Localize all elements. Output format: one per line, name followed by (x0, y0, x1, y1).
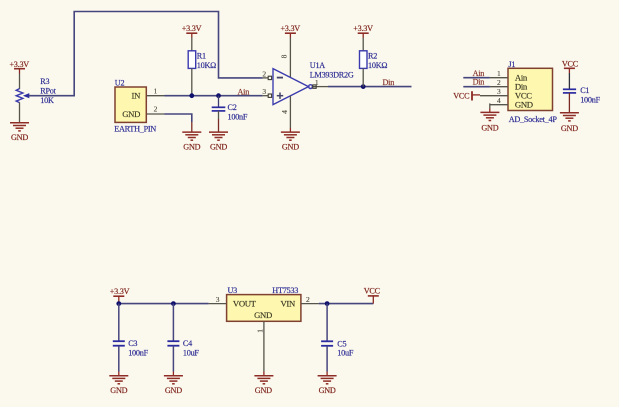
label R3 RPot 10K (40, 77, 56, 105)
pin 4 of U1A (280, 96, 291, 132)
regulator U3 HT7533 (227, 286, 301, 321)
svg-text:C1: C1 (580, 86, 589, 95)
svg-text:GND: GND (515, 99, 533, 109)
svg-text:2: 2 (306, 295, 310, 304)
svg-text:GND: GND (110, 386, 127, 395)
svg-text:C5: C5 (337, 339, 346, 348)
svg-text:100nF: 100nF (580, 96, 600, 105)
svg-text:RPot: RPot (40, 87, 56, 96)
power +3.3V (R2) (353, 24, 373, 37)
wire Din to J1 pin2 (463, 86, 490, 88)
svg-text:4: 4 (497, 96, 501, 105)
svg-text:VIN: VIN (280, 298, 295, 308)
resistor R1 (188, 38, 216, 96)
svg-text:1: 1 (255, 329, 264, 333)
svg-text:VCC: VCC (364, 286, 381, 295)
svg-text:R1: R1 (197, 51, 206, 60)
wire wiper to op-amp pin2 (29, 12, 263, 96)
pin 4 of J1 (490, 96, 508, 105)
svg-text:GND: GND (183, 142, 200, 151)
pin 2 of J1 (490, 78, 508, 87)
power VCC (J1 pin3) (453, 91, 480, 100)
capacitor C2 (212, 96, 248, 132)
svg-text:GND: GND (254, 310, 272, 320)
capacitor C4 (167, 304, 199, 376)
junction (C4) (171, 301, 176, 306)
power VCC (U3 right) (364, 286, 381, 303)
svg-text:8: 8 (280, 54, 289, 58)
power +3.3V (bottom) (110, 287, 130, 304)
pin 1 of U1A (output) (312, 78, 328, 88)
ground (U2 pin2) (182, 132, 201, 151)
svg-text:VCC: VCC (453, 91, 470, 100)
pin 3 of U1A (262, 87, 271, 97)
svg-text:GND: GND (210, 142, 227, 151)
component U2 EARTH_PIN (114, 79, 156, 134)
svg-text:VOUT: VOUT (233, 298, 257, 308)
svg-text:10uF: 10uF (337, 349, 354, 358)
svg-text:AD_Socket_4P: AD_Socket_4P (509, 115, 558, 124)
pin 1 of U2 (147, 87, 165, 96)
capacitor C5 (321, 304, 354, 376)
svg-text:IN: IN (132, 90, 142, 100)
svg-text:2: 2 (154, 104, 158, 113)
pin 1 of J1 (490, 69, 508, 78)
junction (C3) (116, 301, 121, 306)
junction (R1 bottom) (189, 93, 194, 98)
potentiometer R3 (16, 74, 29, 123)
svg-text:HT7533: HT7533 (272, 286, 298, 295)
svg-text:+3.3V: +3.3V (353, 24, 373, 33)
pin 2 of U2 (147, 104, 165, 114)
svg-text:10KΩ: 10KΩ (368, 61, 387, 70)
svg-text:+3.3V: +3.3V (280, 24, 300, 33)
svg-text:GND: GND (282, 142, 299, 151)
capacitor C1 (563, 73, 601, 113)
svg-text:3: 3 (497, 87, 501, 96)
svg-text:10K: 10K (40, 96, 54, 105)
svg-text:Ain: Ain (238, 87, 250, 96)
pin 1 of U3 (GND) (255, 321, 264, 375)
svg-text:+3.3V: +3.3V (9, 60, 29, 69)
svg-text:U2: U2 (115, 79, 125, 88)
power VCC (C1) (562, 60, 579, 74)
resistor R2 (360, 38, 388, 87)
svg-text:10uF: 10uF (183, 348, 200, 357)
svg-text:U1A: U1A (310, 61, 326, 70)
svg-text:VCC: VCC (562, 60, 579, 69)
ground (J1 pin4) (480, 112, 499, 132)
ground (R3) (10, 123, 29, 142)
svg-text:Din: Din (473, 78, 485, 87)
svg-text:GND: GND (11, 133, 28, 142)
op-amp U1A (273, 61, 354, 104)
svg-text:R3: R3 (40, 77, 49, 86)
svg-text:+3.3V: +3.3V (182, 24, 202, 33)
svg-text:Din: Din (383, 78, 395, 87)
power +3.3V (R3) (9, 60, 29, 74)
svg-text:1: 1 (154, 87, 158, 96)
pin 2 of U3 (301, 295, 319, 304)
svg-text:C2: C2 (228, 103, 237, 112)
pin 3 of U3 (209, 295, 227, 304)
wire +3.3V to U3 pin3 (119, 303, 209, 305)
ground (C5) (318, 376, 337, 395)
junction (C2 top) (216, 93, 221, 98)
ground (C3) (109, 376, 128, 395)
pin 3 of J1 (480, 87, 508, 96)
ground (C2) (209, 132, 228, 151)
junction (C5) (325, 301, 330, 306)
power +3.3V (U1A pin8) (280, 24, 300, 37)
svg-text:GND: GND (481, 123, 498, 132)
pin 8 of U1A (280, 38, 291, 78)
wire U3 pin2 to VCC (319, 303, 373, 305)
svg-text:GND: GND (122, 109, 140, 119)
svg-text:GND: GND (255, 386, 272, 395)
ground (U1A pin4) (281, 132, 300, 151)
wire J1 pin4 to ground (489, 103, 491, 112)
svg-text:3: 3 (262, 87, 266, 96)
svg-text:GND: GND (165, 386, 182, 395)
svg-text:U3: U3 (228, 286, 238, 295)
connector J1 AD_Socket_4P (508, 60, 557, 124)
ground (C1) (560, 113, 579, 133)
svg-text:2: 2 (497, 78, 501, 87)
svg-text:100nF: 100nF (228, 113, 248, 122)
svg-text:EARTH_PIN: EARTH_PIN (114, 125, 156, 134)
wire Ain to J1 pin1 (463, 77, 490, 79)
svg-text:GND: GND (319, 386, 336, 395)
svg-text:2: 2 (262, 69, 266, 78)
capacitor C3 (113, 304, 149, 376)
svg-text:R2: R2 (368, 51, 377, 60)
wire U2 pin2 to ground (165, 114, 192, 132)
wire output to Din (328, 86, 412, 88)
svg-text:100nF: 100nF (128, 348, 148, 357)
svg-text:3: 3 (216, 295, 220, 304)
power +3.3V (R1) (182, 24, 202, 37)
svg-text:GND: GND (561, 124, 578, 133)
junction (R2 bottom) (361, 84, 366, 89)
svg-text:C3: C3 (128, 339, 137, 348)
svg-text:1: 1 (315, 78, 319, 87)
ground (U3) (254, 376, 273, 395)
svg-text:C4: C4 (183, 339, 192, 348)
svg-text:4: 4 (280, 110, 289, 114)
ground (C4) (164, 376, 183, 395)
pin 2 of U1A (262, 69, 271, 79)
svg-text:10KΩ: 10KΩ (197, 61, 216, 70)
svg-text:1: 1 (497, 69, 501, 78)
wire main row (U2 pin1 to op-amp pin3) (165, 95, 263, 97)
svg-text:+3.3V: +3.3V (110, 287, 130, 296)
